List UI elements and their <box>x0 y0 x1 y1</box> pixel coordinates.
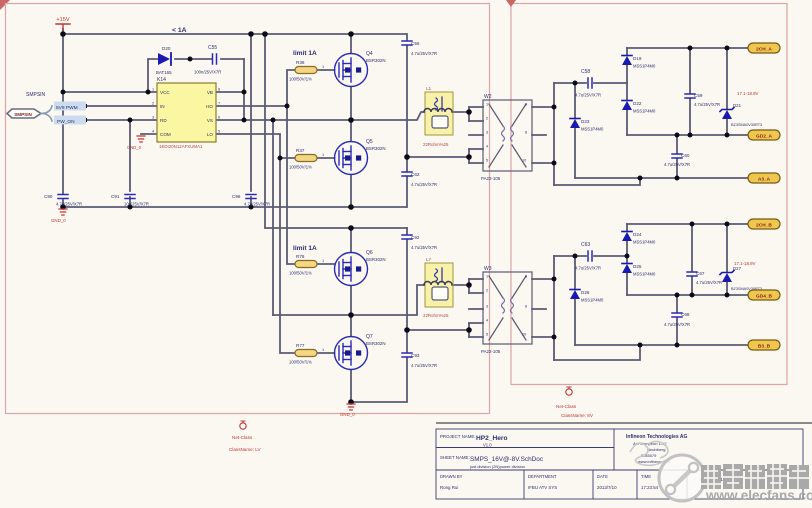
wire: C92/C93 branch x406 lower <box>351 228 407 402</box>
node: PW_ON terminal <box>83 118 87 122</box>
capacitor C67 <box>687 271 722 285</box>
svg-text:8: 8 <box>218 88 220 92</box>
svg-text:3: 3 <box>486 131 488 135</box>
svg-text:1: 1 <box>486 275 488 279</box>
wire: C96 branch x251 <box>250 34 252 207</box>
svg-text:GD2_A: GD2_A <box>756 133 773 139</box>
svg-text:4: 4 <box>152 130 154 134</box>
wire: W3 pin stubs right <box>532 279 554 337</box>
wire: Q6 source to mid node B <box>350 286 352 315</box>
8V box top marker <box>506 0 516 7</box>
svg-text:4.7u/25V/X7R: 4.7u/25V/X7R <box>411 182 437 187</box>
resistor R37 <box>289 148 324 170</box>
wire: secondary A return <box>554 178 640 185</box>
svg-text:BSR302N: BSR302N <box>366 146 386 151</box>
svg-text:D21: D21 <box>733 103 742 108</box>
svg-text:V1.0: V1.0 <box>483 443 492 448</box>
svg-text:C60: C60 <box>681 153 690 158</box>
svg-text:W3: W3 <box>484 266 492 272</box>
node: gnd corner lower <box>348 399 354 405</box>
svg-text:+15V: +15V <box>56 17 69 23</box>
node: C62 tap <box>404 154 410 160</box>
resistor R76 <box>289 254 324 276</box>
svg-text:ClassName: LV: ClassName: LV <box>229 447 262 452</box>
svg-text:6: 6 <box>525 103 527 107</box>
svg-text:3: 3 <box>152 116 154 120</box>
ground GND_0 lower <box>340 404 355 417</box>
node: C91 gnd <box>128 205 133 210</box>
wire: W2 pin stubs left <box>469 107 483 163</box>
node: D26 tap B <box>573 254 578 259</box>
svg-text:4: 4 <box>486 319 488 323</box>
svg-text:5: 5 <box>486 159 488 163</box>
node: Q6 drain tap <box>348 225 354 231</box>
svg-text:D19: D19 <box>633 56 642 61</box>
node: D20/C55 mid <box>188 57 193 62</box>
svg-text:C59: C59 <box>694 93 703 98</box>
svg-text:Q5: Q5 <box>366 139 373 145</box>
svg-text:BAT165: BAT165 <box>156 70 172 75</box>
wire: C63 series line y256 <box>554 255 627 257</box>
svg-text:SMPSIN: SMPSIN <box>14 112 32 117</box>
svg-text:A3_A: A3_A <box>758 176 771 182</box>
svg-text:VCC: VCC <box>160 90 170 95</box>
svg-text:HP2_Hero: HP2_Hero <box>476 435 508 442</box>
net class marker LV <box>229 421 262 452</box>
svg-text:SMPSIN: SMPSIN <box>26 92 46 98</box>
transistor Q5 <box>335 139 386 175</box>
svg-text:W2: W2 <box>484 94 492 100</box>
svg-text:4.7u/25V/X7R: 4.7u/25V/X7R <box>575 266 601 271</box>
node: W2 primary top tie <box>466 109 472 115</box>
svg-text:MSS1P4M0: MSS1P4M0 <box>633 64 656 69</box>
diode D23 <box>570 119 604 132</box>
svg-text:22Rohm%25: 22Rohm%25 <box>423 142 449 147</box>
svg-text:C68: C68 <box>681 312 690 317</box>
svg-text:LO: LO <box>207 132 214 137</box>
svg-text:MSS1P4M0: MSS1P4M0 <box>581 298 604 303</box>
wire: Q7 drain <box>350 315 352 336</box>
svg-text:1: 1 <box>322 348 324 352</box>
svg-text:K14: K14 <box>157 77 166 83</box>
capacitor C96 <box>232 194 270 207</box>
svg-text:VS: VS <box>207 118 213 123</box>
wire: 15V feed to lower bridge x265 <box>265 34 407 228</box>
inductor L7 <box>423 257 453 318</box>
wire: HO net to gates <box>216 70 335 264</box>
svg-text:HO: HO <box>206 104 213 109</box>
svg-text:100/50V/1%: 100/50V/1% <box>289 165 312 170</box>
svg-text:100n/25V/X7R: 100n/25V/X7R <box>194 70 221 75</box>
svg-text:SHEET NAME:: SHEET NAME: <box>440 455 470 460</box>
node: PWM terminal <box>83 104 87 108</box>
svg-text:10: 10 <box>522 159 526 163</box>
watermark chinese glyph blocks <box>701 464 809 489</box>
svg-text:5V9 PWM: 5V9 PWM <box>56 105 78 111</box>
svg-text:Infineon Technologies AG: Infineon Technologies AG <box>626 434 688 440</box>
svg-text:GD4_B: GD4_B <box>756 293 773 299</box>
node: D27 bottom <box>725 293 730 298</box>
wire: ground rail y207 <box>63 206 406 208</box>
svg-text:17:23:54: 17:23:54 <box>641 485 659 490</box>
svg-text:PROJECT NAME:: PROJECT NAME: <box>440 434 476 439</box>
wire: W3 lower primary tie <box>407 323 469 337</box>
port 2CH_B <box>748 219 780 229</box>
node: D21 bottom <box>725 133 730 138</box>
wire: C67 branch x692 <box>691 224 693 295</box>
wire: +15V vertical feed x63 <box>62 29 64 207</box>
node: W3 sec pin6 tap <box>552 277 557 282</box>
capacitor C62 <box>402 172 437 187</box>
svg-text:R77: R77 <box>296 343 305 348</box>
node: C59 bottom <box>688 133 693 138</box>
svg-text:C55: C55 <box>208 45 217 51</box>
svg-text:L7: L7 <box>426 257 432 262</box>
node: C60 bottom <box>675 176 680 181</box>
node: D25 top <box>625 254 630 259</box>
port GD4_B <box>748 290 780 300</box>
zener D27 <box>720 261 762 291</box>
svg-text:10n/25V/X7R: 10n/25V/X7R <box>124 202 149 207</box>
svg-text:C56: C56 <box>411 41 420 46</box>
wire: PW_ON input <box>85 119 157 121</box>
svg-text:C62: C62 <box>411 172 420 177</box>
svg-text:DEPARTMENT: DEPARTMENT <box>528 474 557 479</box>
wire: Q5 source to ground <box>350 175 352 207</box>
svg-text:GND_0: GND_0 <box>51 218 66 223</box>
svg-text:4.7u/25V/X7R: 4.7u/25V/X7R <box>411 245 437 250</box>
node: W2 sec pin10 tap <box>552 161 557 166</box>
svg-text:C92: C92 <box>411 235 420 240</box>
wire: VCC line y92 <box>63 91 157 93</box>
wire: W3 pin stubs left <box>469 279 483 337</box>
node: C60 top <box>675 133 680 138</box>
node: VB/VS vertical bottom <box>242 118 247 123</box>
gate driver IC K14 <box>152 77 220 149</box>
transformer W3 PA22-105 <box>481 266 532 354</box>
svg-text:1: 1 <box>322 65 324 69</box>
svg-text:DRAWN BY: DRAWN BY <box>440 474 463 479</box>
node: mid node B <box>348 312 354 318</box>
svg-text:BSR302N: BSR302N <box>366 257 386 262</box>
node: C96 gnd <box>249 205 254 210</box>
diode D25 <box>622 264 656 277</box>
svg-text:C58: C58 <box>581 69 590 75</box>
node: C93 tap <box>404 327 410 333</box>
node: C67 bottom <box>690 293 695 298</box>
node: D23 tap A <box>573 81 578 86</box>
capacitor C55 <box>194 45 221 75</box>
svg-text:C67: C67 <box>696 271 705 276</box>
node: Q4 drain tap <box>348 31 354 37</box>
node: VS bus tee <box>271 118 276 123</box>
svg-text:4.7u/25V/X7R: 4.7u/25V/X7R <box>411 363 437 368</box>
svg-text:Rong Rui: Rong Rui <box>440 485 458 490</box>
svg-text:2: 2 <box>486 117 488 121</box>
svg-text:3: 3 <box>486 305 488 309</box>
diode D22 <box>622 101 656 114</box>
resistor R36 <box>289 60 324 82</box>
svg-text:PW_ON: PW_ON <box>57 119 75 125</box>
svg-text:4.7u/25V/X7R: 4.7u/25V/X7R <box>696 280 722 285</box>
node: W2 primary bottom tie <box>466 154 472 160</box>
wire: D25 branch <box>626 256 628 295</box>
elecfans stamp circle <box>659 455 705 501</box>
wire: Q5 drain <box>350 120 352 141</box>
capacitor C93 <box>402 353 437 368</box>
capacitor C60 <box>664 153 690 167</box>
svg-text:R37: R37 <box>296 148 305 153</box>
svg-text:8: 8 <box>525 131 527 135</box>
svg-text:limit 1A: limit 1A <box>293 50 317 57</box>
node: D21 top <box>725 46 730 51</box>
svg-text:1: 1 <box>152 88 154 92</box>
svg-text:Q6: Q6 <box>366 250 373 256</box>
svg-text:PA22-105: PA22-105 <box>481 176 501 181</box>
wire: C60 branch x677 <box>676 135 678 178</box>
svg-text:MSS1P4M0: MSS1P4M0 <box>633 109 656 114</box>
svg-text:R76: R76 <box>296 254 305 259</box>
svg-text:MSS1P4M0: MSS1P4M0 <box>581 127 604 132</box>
transistor Q4 <box>335 51 386 87</box>
svg-text:4.7u/25V/X7R: 4.7u/25V/X7R <box>664 162 690 167</box>
svg-text:IFBU ATV SYS: IFBU ATV SYS <box>528 485 557 490</box>
node: C59 top <box>688 46 693 51</box>
svg-text:BSR302N: BSR302N <box>366 341 386 346</box>
svg-text:GND_0: GND_0 <box>127 145 142 150</box>
8V section red border box <box>511 4 787 385</box>
svg-text:100/50V/1%: 100/50V/1% <box>289 271 312 276</box>
wire: D24 branch <box>626 224 628 256</box>
wire: gnd rail A y178 <box>575 177 748 179</box>
node: D27 top <box>725 222 730 227</box>
title block frame <box>436 429 803 499</box>
svg-text:www.elecfans.com: www.elecfans.com <box>705 488 812 503</box>
svg-text:D26: D26 <box>581 290 590 295</box>
wire: secondary A vertical x554 <box>553 83 555 185</box>
wire: C56/C62 branch x406 <box>406 34 408 207</box>
wire: VS net <box>216 120 351 315</box>
svg-text:limit 1A: limit 1A <box>293 245 317 252</box>
svg-text:100/50V/1%: 100/50V/1% <box>289 77 312 82</box>
svg-text:4.7u/25V/X7R: 4.7u/25V/X7R <box>664 322 690 327</box>
node: D20 anode tap <box>146 90 151 95</box>
port B3_B <box>748 340 780 350</box>
svg-text:MSS1P4M0: MSS1P4M0 <box>633 272 656 277</box>
node: C68 top <box>675 293 680 298</box>
svg-text:100/50V/1%: 100/50V/1% <box>289 360 312 365</box>
svg-text:L1: L1 <box>426 86 432 91</box>
svg-text:Net-Class: Net-Class <box>556 404 577 409</box>
title area divider line <box>436 422 812 424</box>
transistor Q7 <box>335 334 386 370</box>
ground GND_0 at COM <box>127 136 145 150</box>
wire: D22 branch <box>626 83 628 135</box>
diode D20 BAT165 <box>156 46 172 75</box>
svg-text:GND_0: GND_0 <box>340 412 355 417</box>
wire: +15V top rail <box>63 33 406 35</box>
wire: W2 lower primary tie <box>407 149 469 163</box>
node: W3 primary top tie <box>466 282 472 288</box>
svg-text:4.7u/25V/X7R: 4.7u/25V/X7R <box>575 93 601 98</box>
diode D26 <box>570 290 604 303</box>
node: C96 top <box>248 31 254 37</box>
svg-text:Q4: Q4 <box>366 51 373 57</box>
svg-text:RD: RD <box>160 118 167 123</box>
wire: C59 branch x690 <box>689 48 691 135</box>
svg-text:D22: D22 <box>633 101 642 106</box>
svg-text:5: 5 <box>486 333 488 337</box>
diode D24 <box>622 232 656 245</box>
svg-text:VB: VB <box>207 90 213 95</box>
svg-text:D23: D23 <box>581 119 590 124</box>
capacitor C63 <box>575 242 601 271</box>
node: C68 bottom <box>675 343 680 348</box>
wire: zener D27 branch x727 <box>726 224 728 295</box>
node: C90 gnd <box>60 204 66 210</box>
svg-text:C91: C91 <box>111 194 120 199</box>
svg-text:SMPS_16V@-8V.SchDoc: SMPS_16V@-8V.SchDoc <box>470 456 544 463</box>
svg-text:5: 5 <box>218 130 220 134</box>
svg-text:R36: R36 <box>296 60 305 65</box>
capacitor C68 <box>664 312 690 327</box>
node: LO/R37 tee <box>278 156 283 161</box>
svg-text:1EDI20N12AFXUMA1: 1EDI20N12AFXUMA1 <box>159 144 203 149</box>
power port +15V <box>56 17 70 29</box>
wire: secondary B return <box>554 345 640 360</box>
wire: C58 series line y83 <box>554 82 627 84</box>
wire: mid line B to L7 <box>273 279 469 315</box>
wire: D23 branch x575 <box>574 83 576 178</box>
node: C67 top <box>690 222 695 227</box>
LV section red border box <box>6 4 490 414</box>
signature scribble over title block <box>630 441 668 465</box>
svg-text:MSS1P4M0: MSS1P4M0 <box>633 240 656 245</box>
wire: LO net to gates <box>216 134 335 353</box>
svg-text:D25: D25 <box>633 264 642 269</box>
wire: Q4 drain <box>350 34 352 53</box>
svg-text:IN: IN <box>160 104 165 109</box>
svg-text:Q7: Q7 <box>366 334 373 340</box>
svg-text:4.7u/25V/X7R: 4.7u/25V/X7R <box>694 102 720 107</box>
svg-text:2CH_B: 2CH_B <box>756 222 772 228</box>
svg-text:PA22-105: PA22-105 <box>481 349 501 354</box>
svg-text:C96: C96 <box>232 194 241 199</box>
svg-text:4.7u/25V/X7R: 4.7u/25V/X7R <box>411 51 437 56</box>
svg-text:D24: D24 <box>633 232 642 237</box>
svg-text:TIME: TIME <box>641 474 651 479</box>
capacitor C56 <box>402 41 437 56</box>
node: W3 sec pin10 tap <box>552 335 557 340</box>
wire: +rail A y48 <box>627 47 748 49</box>
resistor R77 <box>289 343 324 365</box>
svg-text:6: 6 <box>525 275 527 279</box>
wire: Q4 source to mid node <box>350 87 352 120</box>
svg-text:17.1-18.9V: 17.1-18.9V <box>737 91 759 96</box>
port 2CH_A <box>748 43 780 53</box>
node: return tap B <box>638 343 643 348</box>
svg-text:C90: C90 <box>44 194 53 199</box>
svg-text:4.7u/25V/X7R: 4.7u/25V/X7R <box>244 202 270 207</box>
wire: secondary B vertical x554 <box>553 256 555 360</box>
wire: D26 branch x575 <box>574 256 576 345</box>
svg-text:< 1A: < 1A <box>172 27 187 34</box>
svg-text:B3_B: B3_B <box>758 343 771 349</box>
wire: Q6 drain <box>350 228 352 252</box>
port A3_A <box>748 173 780 183</box>
svg-text:2013/7/10: 2013/7/10 <box>597 485 617 490</box>
wire: Q7 source to ground <box>350 370 352 402</box>
svg-text:ClassName: 8V: ClassName: 8V <box>561 413 594 418</box>
svg-text:D27: D27 <box>733 266 742 271</box>
svg-text:DATE: DATE <box>597 474 608 479</box>
node: mid node A <box>348 117 354 123</box>
svg-text:Net-Class: Net-Class <box>232 435 253 440</box>
wire: +rail B y224 <box>627 223 748 225</box>
svg-text:C63: C63 <box>581 242 590 248</box>
wire: 5V9 PWM input <box>85 105 157 107</box>
svg-text:COM: COM <box>160 132 171 137</box>
wire: C91 branch x130 <box>129 120 131 207</box>
node: VB jog <box>242 90 247 95</box>
net class marker 8V <box>556 387 594 418</box>
svg-text:7: 7 <box>218 102 220 106</box>
svg-text:D20: D20 <box>162 46 171 51</box>
capacitor C59 <box>685 93 720 107</box>
wire: zener D21 branch x727 <box>726 48 728 135</box>
wire: COM pin stub <box>141 133 157 135</box>
svg-text:6: 6 <box>218 116 220 120</box>
connector SMPSIN harness <box>7 92 86 125</box>
svg-text:22Rohm%25: 22Rohm%25 <box>423 313 449 318</box>
node: return tap A <box>638 176 643 181</box>
node: HO tee <box>285 104 290 109</box>
svg-text:2: 2 <box>486 289 488 293</box>
node: +15V rail corner <box>60 31 66 37</box>
node: 15V lower feed top <box>262 31 268 37</box>
svg-text:just division (2N)power divisi: just division (2N)power division <box>469 464 525 469</box>
zener D21 <box>720 91 762 127</box>
wire: C68 branch x677 <box>676 295 678 345</box>
svg-text:8: 8 <box>525 305 527 309</box>
node: VCC tap <box>61 90 66 95</box>
capacitor C90 <box>44 194 82 207</box>
wire: W2 pin stubs right <box>532 107 554 163</box>
wire: D19 branch x627 <box>626 48 628 83</box>
svg-text:1: 1 <box>322 153 324 157</box>
wire: mid rail A y135 <box>627 134 748 136</box>
node: C91 on PW_ON <box>128 118 133 123</box>
sheet corner marker top-left <box>0 0 10 10</box>
svg-text:BZ3SMA0V30RT3: BZ3SMA0V30RT3 <box>731 123 762 127</box>
wire: gnd rail B y345 <box>575 344 748 346</box>
inductor L1 <box>423 86 453 147</box>
node: Q5 source gnd <box>348 204 354 210</box>
wire: mid rail B y295 <box>627 294 748 296</box>
node: W2 sec pin6 tap <box>552 105 557 110</box>
diode D19 <box>622 56 656 69</box>
svg-text:1: 1 <box>322 259 324 263</box>
wire: VB jog x244 <box>216 59 244 120</box>
svg-text:Neubiberg: Neubiberg <box>647 447 665 452</box>
svg-text:1: 1 <box>486 103 488 107</box>
node: W3 primary bottom tie <box>466 327 472 333</box>
transistor Q6 <box>335 250 386 286</box>
transformer W2 PA22-105 <box>481 94 532 181</box>
capacitor C92 <box>402 235 437 250</box>
svg-text:BSR302N: BSR302N <box>366 58 386 63</box>
wire: bootstrap branch y59 with D20/C55 <box>148 59 244 92</box>
